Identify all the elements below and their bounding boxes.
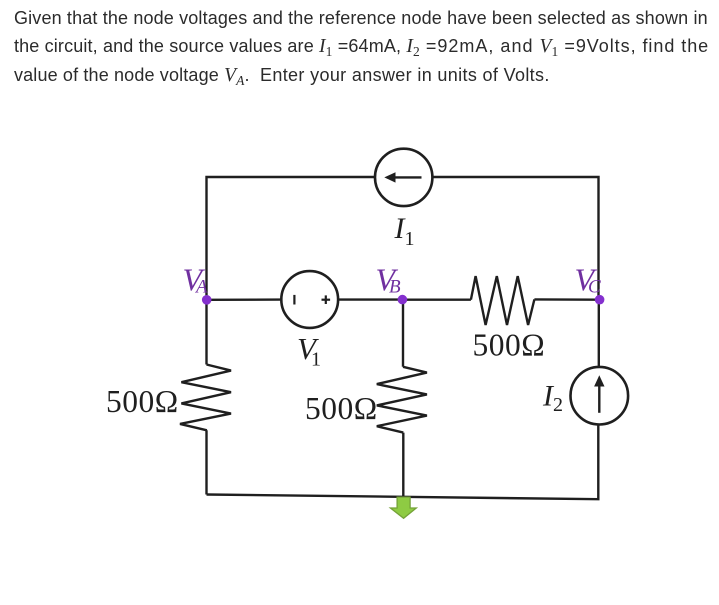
resistor R1 zigzag <box>180 365 231 431</box>
current source I1 circle <box>375 149 432 206</box>
svg-text:VB: VB <box>376 262 402 298</box>
voltage source V1 circle <box>281 271 338 328</box>
svg-text:VC: VC <box>575 262 602 298</box>
node C dot <box>595 295 605 305</box>
wire node B down <box>402 300 404 367</box>
resistor R3 zigzag <box>471 276 535 325</box>
node A dot <box>202 295 212 305</box>
wire V1 to node B <box>338 298 402 300</box>
wire top-right segment <box>433 177 599 300</box>
voltage source V1 polarity marks <box>294 295 330 305</box>
wire node C to I2 <box>598 300 600 367</box>
svg-text:500Ω: 500Ω <box>473 328 546 363</box>
wire node A to V1 <box>207 298 282 301</box>
wire left bottom <box>205 430 207 494</box>
wire mid resistor to bottom <box>402 433 404 497</box>
wire R3 to node C <box>534 298 599 301</box>
current source I2 circle <box>571 367 629 425</box>
svg-text:I2: I2 <box>542 380 563 417</box>
svg-text:I1: I1 <box>394 212 415 250</box>
svg-text:V1: V1 <box>297 331 321 371</box>
ground reference arrow <box>390 497 416 518</box>
wire left lower <box>205 300 207 365</box>
svg-text:500Ω: 500Ω <box>106 384 179 419</box>
wire top-left segment <box>207 177 376 300</box>
current source I1 arrow <box>384 172 421 182</box>
node B dot <box>398 295 408 305</box>
resistor R2 zigzag <box>377 367 427 433</box>
current source I2 arrow <box>594 375 604 413</box>
svg-text:VA: VA <box>183 262 209 298</box>
wire node B to R3 <box>402 299 471 301</box>
wire bottom <box>207 425 599 500</box>
svg-text:500Ω: 500Ω <box>305 391 378 426</box>
